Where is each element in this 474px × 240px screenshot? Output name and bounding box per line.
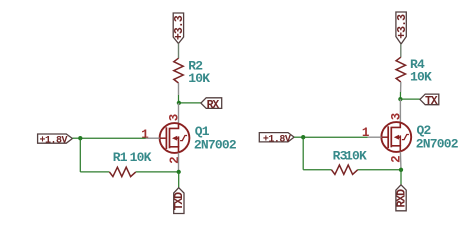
- Q2 source stub: [392, 146, 401, 152]
- svg-text:10K: 10K: [410, 69, 432, 84]
- junction dot +1.8V (right): [301, 135, 305, 139]
- power flag +3.3 (left): [173, 13, 183, 44]
- wire: R2 bottom to node RX junction: [178, 83, 180, 95]
- junction dot node RX: [177, 101, 181, 105]
- power flag +1.8V (right): [259, 133, 294, 142]
- Q1 drain stub: [170, 123, 179, 128]
- junction dot node TXD: [177, 170, 181, 174]
- power flag +3.3 (right): [396, 12, 406, 44]
- wire: R3 right segment to RXD node: [358, 169, 401, 171]
- wire: +3.3 flag to R4 top (right): [400, 44, 402, 57]
- Q1 source-body vertical: [178, 136, 180, 146]
- svg-text:10K: 10K: [130, 150, 152, 165]
- Q1 body line to source: [177, 137, 179, 139]
- svg-text:1: 1: [141, 128, 149, 142]
- svg-text:2: 2: [168, 156, 182, 164]
- wire: junction down to TXD flag: [178, 172, 180, 188]
- svg-text:2N7002: 2N7002: [416, 136, 459, 151]
- Q1 source stub: [170, 147, 179, 153]
- pin 3 wire (drain pin Q2): [399, 99, 401, 122]
- svg-text:RX: RX: [207, 99, 220, 112]
- Q2 body line to source: [398, 136, 400, 138]
- svg-text:3: 3: [389, 113, 403, 121]
- label flag RX: [201, 98, 222, 109]
- Q2 body diode zener mark: [402, 135, 409, 140]
- svg-text:+3.3: +3.3: [396, 14, 409, 39]
- wire: gate net horizontal (left): [80, 137, 146, 139]
- transistor Q1 body circle: [160, 123, 190, 153]
- svg-text:+1.8V: +1.8V: [263, 135, 291, 146]
- svg-text:+1.8V: +1.8V: [39, 135, 67, 146]
- svg-text:3: 3: [168, 114, 182, 122]
- wire: R3 left segment: [303, 169, 331, 171]
- wire: R4 bottom to node TX junction: [400, 82, 402, 92]
- pin 2 wire (source pin Q2): [399, 152, 402, 170]
- label flag RXD: [396, 185, 406, 211]
- wire: junction to TX flag: [400, 98, 420, 100]
- transistor Q2 body circle: [381, 122, 411, 152]
- svg-text:R1: R1: [113, 150, 128, 165]
- wire: +1.8V flag to junction (right): [294, 136, 303, 138]
- wire: +1.8V flag to junction: [72, 137, 80, 139]
- Q1 gate bar: [165, 127, 167, 149]
- wire: gate net horizontal (right): [303, 136, 367, 138]
- junction dot +1.8V (left): [78, 136, 82, 140]
- wire: R1 left segment: [80, 171, 109, 173]
- label flag TXD: [174, 188, 184, 214]
- Q2 gate lead inside circle: [382, 136, 388, 138]
- label flag TX: [420, 94, 439, 105]
- pin 1 wire (gate pin Q1): [146, 137, 160, 139]
- Q2 drain stub: [392, 122, 401, 127]
- svg-text:RXD: RXD: [396, 189, 409, 208]
- Q1 channel bar: [169, 128, 171, 149]
- wire: junction to RX flag: [179, 102, 201, 104]
- Q2 gate bar: [387, 126, 389, 148]
- wire: down from +1.8V junction (left): [79, 138, 81, 172]
- wire: +3.3 flag to R2 top (left): [178, 44, 180, 59]
- resistor R2: [174, 58, 183, 83]
- pin 3 wire (drain pin Q1): [178, 103, 180, 123]
- wire: R1 right segment to TXD node: [136, 171, 179, 173]
- Q1 body arrow: [172, 136, 177, 141]
- svg-text:TX: TX: [425, 95, 438, 108]
- svg-text:10K: 10K: [188, 71, 210, 86]
- svg-text:2N7002: 2N7002: [194, 137, 237, 152]
- wire: down from +1.8V junction (right): [302, 137, 304, 170]
- power flag +1.8V (left): [38, 134, 73, 143]
- pin 1 wire (gate pin Q2): [368, 136, 382, 138]
- Q2 body arrow: [394, 135, 399, 140]
- junction dot node TX: [398, 97, 402, 101]
- resistor R4: [396, 57, 405, 82]
- svg-text:TXD: TXD: [173, 192, 186, 211]
- wire: junction down to RXD flag: [400, 170, 402, 185]
- svg-text:+3.3: +3.3: [173, 15, 186, 40]
- resistor R1: [109, 167, 135, 176]
- Q1 body diode zener mark: [180, 136, 187, 141]
- pin 2 wire (source pin Q1): [178, 153, 180, 172]
- junction dot node RXD: [399, 168, 403, 172]
- resistor R3: [331, 165, 357, 174]
- svg-text:10K: 10K: [345, 149, 367, 164]
- Q2 channel bar: [390, 127, 392, 148]
- Q1 gate lead inside circle: [160, 137, 166, 139]
- Q2 source-body vertical: [399, 135, 401, 145]
